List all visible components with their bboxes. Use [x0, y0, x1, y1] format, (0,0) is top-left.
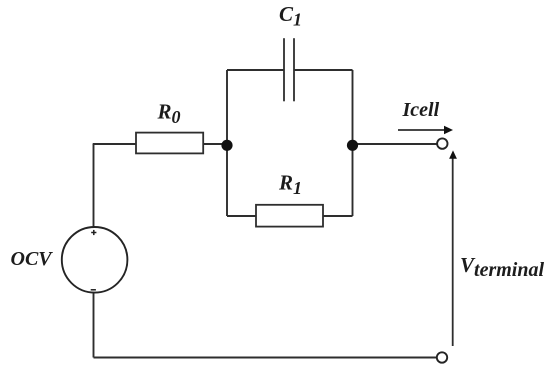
- wire from R1 to right corner: [323, 215, 353, 217]
- wire from R1 branch corner to R1: [227, 215, 256, 217]
- wire parallel-loop right vertical down: [352, 70, 354, 144]
- svg-text:OCV: OCV: [11, 248, 54, 270]
- wire R1 branch right vertical: [352, 144, 354, 216]
- wire top rail left segment to capacitor: [227, 69, 284, 71]
- svg-text:C1: C1: [279, 2, 302, 30]
- resistor R1: [256, 205, 323, 227]
- svg-text:Icell: Icell: [402, 99, 440, 121]
- plus sign: [91, 230, 96, 235]
- wire parallel-loop left vertical up: [226, 70, 228, 144]
- wire bottom rail: [94, 357, 437, 359]
- node B junction dot: [347, 140, 358, 151]
- terminal negative open circle: [437, 352, 447, 362]
- wire from source bottom down to bottom rail: [93, 292, 95, 358]
- minus sign: [91, 289, 96, 291]
- svg-text:Vterminal: Vterminal: [460, 253, 544, 281]
- capacitor C1 plates: [284, 38, 294, 101]
- terminal positive open circle: [437, 138, 447, 148]
- arrow Icell: [398, 126, 453, 135]
- wire from R0 to node A: [203, 143, 227, 145]
- wire from left corner to R0: [93, 143, 136, 145]
- svg-text:R1: R1: [278, 171, 302, 199]
- arrow V terminal (pointing up): [449, 150, 457, 346]
- wire R1 branch left vertical: [226, 144, 228, 216]
- voltage source OCV circle: [62, 227, 128, 293]
- wire top rail right segment from capacitor: [294, 69, 353, 71]
- wire left vertical from R0 row down to source: [93, 144, 95, 227]
- svg-text:R0: R0: [157, 100, 181, 128]
- wire from node B to positive terminal: [353, 143, 438, 145]
- node A junction dot: [221, 140, 232, 151]
- resistor R0: [136, 133, 203, 154]
